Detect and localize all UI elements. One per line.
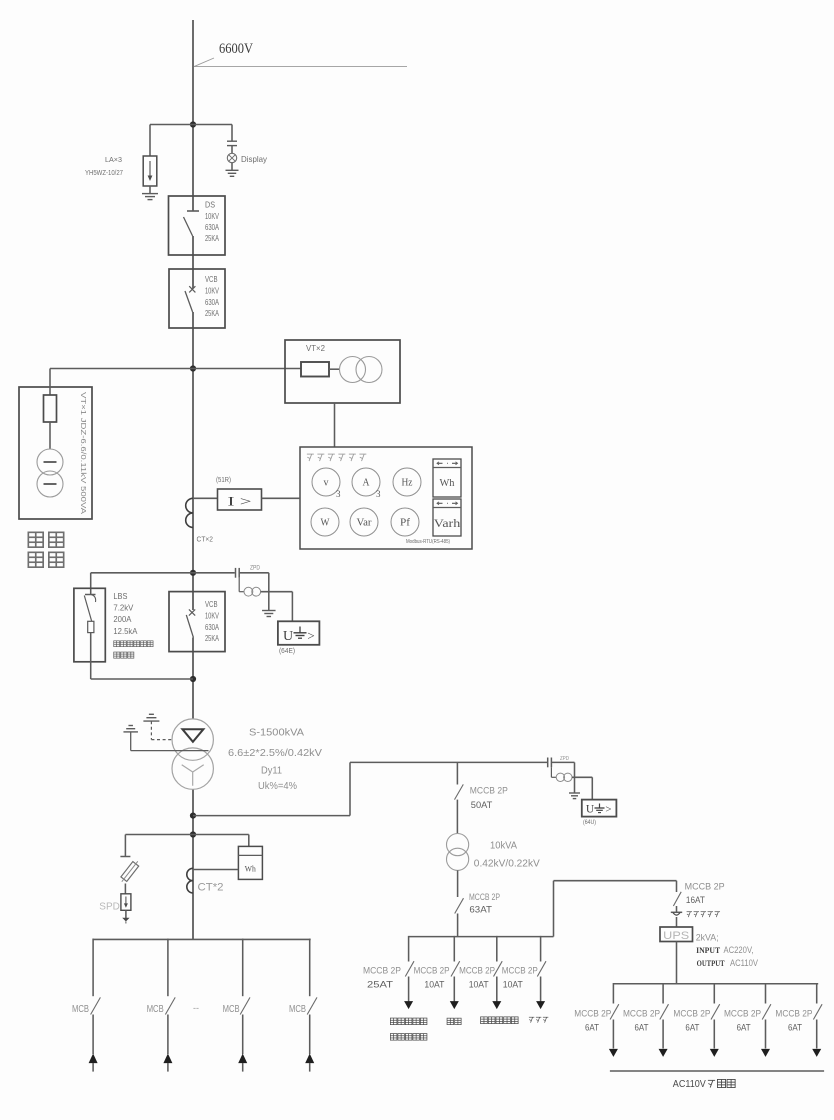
svg-text:>: >	[605, 804, 611, 816]
svg-text:3: 3	[336, 489, 341, 499]
svg-text:MCCB 2P: MCCB 2P	[414, 966, 450, 976]
svg-text:6.6±2*2.5%/0.42kV: 6.6±2*2.5%/0.42kV	[228, 747, 322, 759]
svg-text:DS: DS	[205, 200, 215, 210]
svg-text:25KA: 25KA	[205, 233, 219, 243]
svg-text:VCB: VCB	[205, 274, 218, 284]
svg-text:VCB: VCB	[205, 599, 218, 609]
svg-text:10AT: 10AT	[469, 980, 489, 990]
svg-text:0.42kV/0.22kV: 0.42kV/0.22kV	[474, 859, 540, 870]
svg-text:MCCB 2P: MCCB 2P	[470, 786, 508, 796]
svg-text:Wh: Wh	[440, 478, 456, 489]
svg-text:AC110V: AC110V	[730, 958, 758, 968]
svg-text:MCB: MCB	[223, 1004, 240, 1015]
svg-text:>: >	[307, 628, 314, 643]
svg-text:6600V: 6600V	[219, 41, 253, 57]
svg-text:10KV: 10KV	[205, 211, 219, 221]
svg-text:MCCB 2P: MCCB 2P	[724, 1009, 761, 1019]
svg-text:ZPD: ZPD	[560, 756, 569, 762]
svg-text:MCCB 2P: MCCB 2P	[459, 966, 495, 976]
svg-text:UPS: UPS	[663, 930, 689, 942]
svg-text:INPUT: INPUT	[696, 945, 720, 955]
svg-text:Display: Display	[241, 154, 268, 164]
svg-text:S-1500kVA: S-1500kVA	[249, 727, 304, 739]
svg-text:25KA: 25KA	[205, 308, 219, 318]
svg-text:6AT: 6AT	[635, 1023, 649, 1033]
svg-text:SPD: SPD	[99, 901, 120, 913]
svg-text:10AT: 10AT	[503, 980, 523, 990]
svg-text:MCCB 2P: MCCB 2P	[469, 892, 500, 902]
svg-text:630A: 630A	[205, 622, 219, 632]
svg-text:OUTPUT: OUTPUT	[697, 958, 725, 968]
svg-text:AC110V: AC110V	[673, 1079, 706, 1090]
svg-text:VT×1 JDZ-6.6/0.11kV 500VA: VT×1 JDZ-6.6/0.11kV 500VA	[79, 392, 88, 514]
svg-text:Uk%=4%: Uk%=4%	[258, 780, 297, 792]
svg-text:10KV: 10KV	[205, 286, 219, 296]
svg-text:6AT: 6AT	[585, 1023, 599, 1033]
svg-text:W: W	[321, 518, 331, 529]
svg-text:10KV: 10KV	[205, 611, 219, 621]
svg-text:10AT: 10AT	[424, 980, 444, 990]
svg-text:MCCB 2P: MCCB 2P	[685, 882, 725, 892]
svg-text:v: v	[324, 478, 329, 489]
svg-text:(51R): (51R)	[216, 477, 231, 484]
svg-text:10kVA: 10kVA	[490, 841, 517, 852]
svg-text:Varh: Varh	[434, 518, 461, 530]
svg-text:Var: Var	[357, 518, 373, 529]
svg-text:ZPD: ZPD	[250, 566, 261, 572]
svg-text:MCCB 2P: MCCB 2P	[673, 1009, 710, 1019]
svg-text:YH5WZ-10/27: YH5WZ-10/27	[85, 170, 123, 177]
svg-text:LA×3: LA×3	[105, 155, 122, 164]
svg-text:(64U): (64U)	[583, 819, 596, 826]
svg-text:(64E): (64E)	[279, 648, 295, 655]
svg-text:CT*2: CT*2	[198, 882, 224, 894]
svg-text:MCCB 2P: MCCB 2P	[623, 1009, 660, 1019]
svg-text:630A: 630A	[205, 297, 219, 307]
svg-text:6AT: 6AT	[737, 1023, 751, 1033]
svg-text:50AT: 50AT	[471, 800, 493, 810]
svg-text:Modbus-RTU(RS-485): Modbus-RTU(RS-485)	[406, 539, 450, 545]
svg-text:AC220V,: AC220V,	[724, 945, 754, 955]
svg-text:Pf: Pf	[400, 518, 411, 529]
svg-text:I >: I >	[228, 494, 252, 509]
svg-text:U: U	[283, 629, 293, 644]
svg-text:Dy11: Dy11	[261, 765, 282, 777]
svg-text:7.2kV: 7.2kV	[113, 604, 134, 613]
svg-text:Hz: Hz	[402, 478, 414, 489]
svg-text:MCB: MCB	[289, 1004, 306, 1015]
svg-text:MCB: MCB	[72, 1004, 89, 1015]
svg-text:U: U	[586, 804, 595, 816]
svg-text:16AT: 16AT	[686, 895, 705, 905]
svg-text:2kVA;: 2kVA;	[696, 933, 719, 943]
svg-text:Wh: Wh	[245, 865, 256, 874]
svg-text:LBS: LBS	[113, 592, 127, 601]
svg-text:25AT: 25AT	[367, 980, 394, 990]
svg-text:MCCB 2P: MCCB 2P	[502, 966, 538, 976]
svg-text:MCCB 2P: MCCB 2P	[363, 966, 401, 976]
svg-text:63AT: 63AT	[469, 905, 492, 915]
svg-text:6AT: 6AT	[788, 1023, 802, 1033]
svg-text:630A: 630A	[205, 222, 219, 232]
svg-text:12.5kA: 12.5kA	[113, 627, 138, 636]
svg-text:--: --	[193, 1003, 199, 1013]
svg-text:A: A	[363, 478, 371, 489]
svg-text:MCCB 2P: MCCB 2P	[574, 1009, 611, 1019]
svg-text:200A: 200A	[113, 615, 132, 624]
svg-text:MCB: MCB	[147, 1004, 164, 1015]
svg-text:VT×2: VT×2	[306, 344, 326, 353]
svg-text:CT×2: CT×2	[197, 535, 214, 544]
svg-text:6AT: 6AT	[685, 1023, 699, 1033]
svg-text:3: 3	[376, 489, 381, 499]
svg-text:MCCB 2P: MCCB 2P	[775, 1009, 812, 1019]
svg-text:25KA: 25KA	[205, 633, 219, 643]
